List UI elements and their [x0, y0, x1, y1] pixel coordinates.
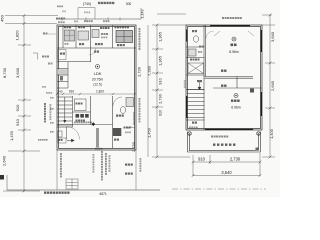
kitchen counter — [116, 31, 133, 43]
right dimension chain — [262, 15, 275, 157]
svg-text:1,143: 1,143 — [141, 10, 145, 19]
svg-text:4571: 4571 — [99, 192, 107, 196]
gas heater labels above top wall — [74, 21, 76, 23]
closet band smudges — [221, 70, 223, 72]
svg-text:LDK: LDK — [94, 71, 102, 76]
svg-text:8.96m: 8.96m — [229, 50, 239, 54]
entrance door arc — [67, 127, 80, 140]
svg-text:240: 240 — [57, 89, 62, 93]
svg-text:1,365: 1,365 — [158, 56, 163, 66]
vertical annotation smudges — [60, 153, 62, 155]
dim 1,143 right of left plan — [140, 8, 142, 19]
svg-text:910: 910 — [15, 104, 20, 111]
wc cell — [192, 30, 194, 32]
annotations right of 1F plan — [139, 28, 141, 30]
site lines below 1F — [57, 150, 136, 190]
small fixture — [92, 30, 99, 38]
washstand cell — [188, 49, 196, 56]
svg-text:1,365: 1,365 — [158, 32, 163, 42]
svg-text:2,640: 2,640 — [2, 155, 7, 166]
room1 label — [232, 37, 236, 41]
text above 2F — [222, 17, 224, 19]
step stool — [113, 128, 122, 136]
svg-text:910: 910 — [159, 110, 163, 116]
FY labels left of plan — [43, 33, 45, 35]
svg-text:(12.5): (12.5) — [93, 83, 101, 87]
three dark units — [76, 114, 80, 118]
boundary label smudge — [98, 2, 100, 4]
left outside annotations mid — [42, 86, 44, 88]
svg-text:1,450: 1,450 — [147, 127, 152, 138]
meter box on left wall — [58, 131, 63, 137]
closet stack left column — [57, 62, 68, 88]
svg-text:910: 910 — [15, 118, 20, 125]
storage boxes right of stairs — [75, 99, 87, 111]
interior dim line — [57, 93, 135, 95]
1F plan outer wall — [57, 25, 136, 150]
svg-text:300: 300 — [126, 2, 132, 6]
svg-text:2,640: 2,640 — [270, 80, 275, 91]
door arc toilet — [113, 97, 122, 106]
left dim labels — [0, 14, 20, 166]
svg-text:20.75m: 20.75m — [92, 78, 103, 82]
svg-text:2,730: 2,730 — [158, 93, 163, 104]
svg-text:1,400: 1,400 — [269, 128, 274, 139]
bath fixture — [65, 30, 75, 41]
closet with X — [188, 63, 204, 74]
corner text top-left of plan — [56, 18, 58, 20]
road boundary label — [44, 192, 46, 194]
svg-text:910: 910 — [158, 77, 163, 84]
left dimension chain — [3, 16, 58, 192]
2F interior walls — [186, 25, 262, 130]
toilet room — [126, 98, 134, 107]
svg-text:3,640: 3,640 — [270, 31, 275, 42]
utility meter table — [66, 179, 78, 189]
hall walls — [57, 96, 113, 148]
porch arrow — [58, 138, 66, 143]
stairs 2F — [197, 80, 199, 82]
road boundary line — [7, 189, 160, 191]
stairs 1F — [57, 96, 73, 127]
svg-text:2,730: 2,730 — [131, 141, 136, 152]
svg-text:1,820: 1,820 — [15, 30, 20, 41]
svg-text:7,280: 7,280 — [147, 65, 152, 76]
neighbor boundary line (top) — [56, 18, 141, 20]
tiny text above entrance line — [74, 122, 76, 124]
2F plan outer wall — [186, 25, 262, 130]
svg-text:2,730: 2,730 — [137, 66, 142, 77]
corner braces room1 — [214, 31, 254, 36]
1F wet-area walls — [57, 25, 136, 62]
svg-text:2,730: 2,730 — [230, 157, 241, 162]
washstand fixture — [78, 31, 89, 40]
2F window segments — [187, 26, 262, 130]
svg-text:1,450: 1,450 — [9, 130, 14, 141]
genkan step band — [96, 128, 99, 148]
svg-text:910: 910 — [69, 89, 75, 93]
2F left dim chain — [148, 14, 190, 157]
top band text smudges — [64, 26, 66, 28]
svg-text:1,820: 1,820 — [96, 89, 104, 93]
top dim line with (740) — [78, 8, 95, 20]
room2 label — [234, 94, 238, 98]
bottom dimension lines 2F — [193, 153, 260, 176]
svg-text:910: 910 — [198, 157, 206, 162]
svg-text:3,640: 3,640 — [15, 67, 20, 78]
oshiire 2F — [192, 122, 194, 124]
svg-text:8,730: 8,730 — [2, 67, 7, 78]
balcony — [188, 132, 261, 153]
svg-text:6.96m: 6.96m — [231, 106, 241, 110]
svg-text:450: 450 — [0, 14, 5, 21]
LDK label — [96, 65, 100, 69]
svg-text:(740): (740) — [83, 2, 91, 6]
svg-text:3,640: 3,640 — [221, 170, 232, 175]
